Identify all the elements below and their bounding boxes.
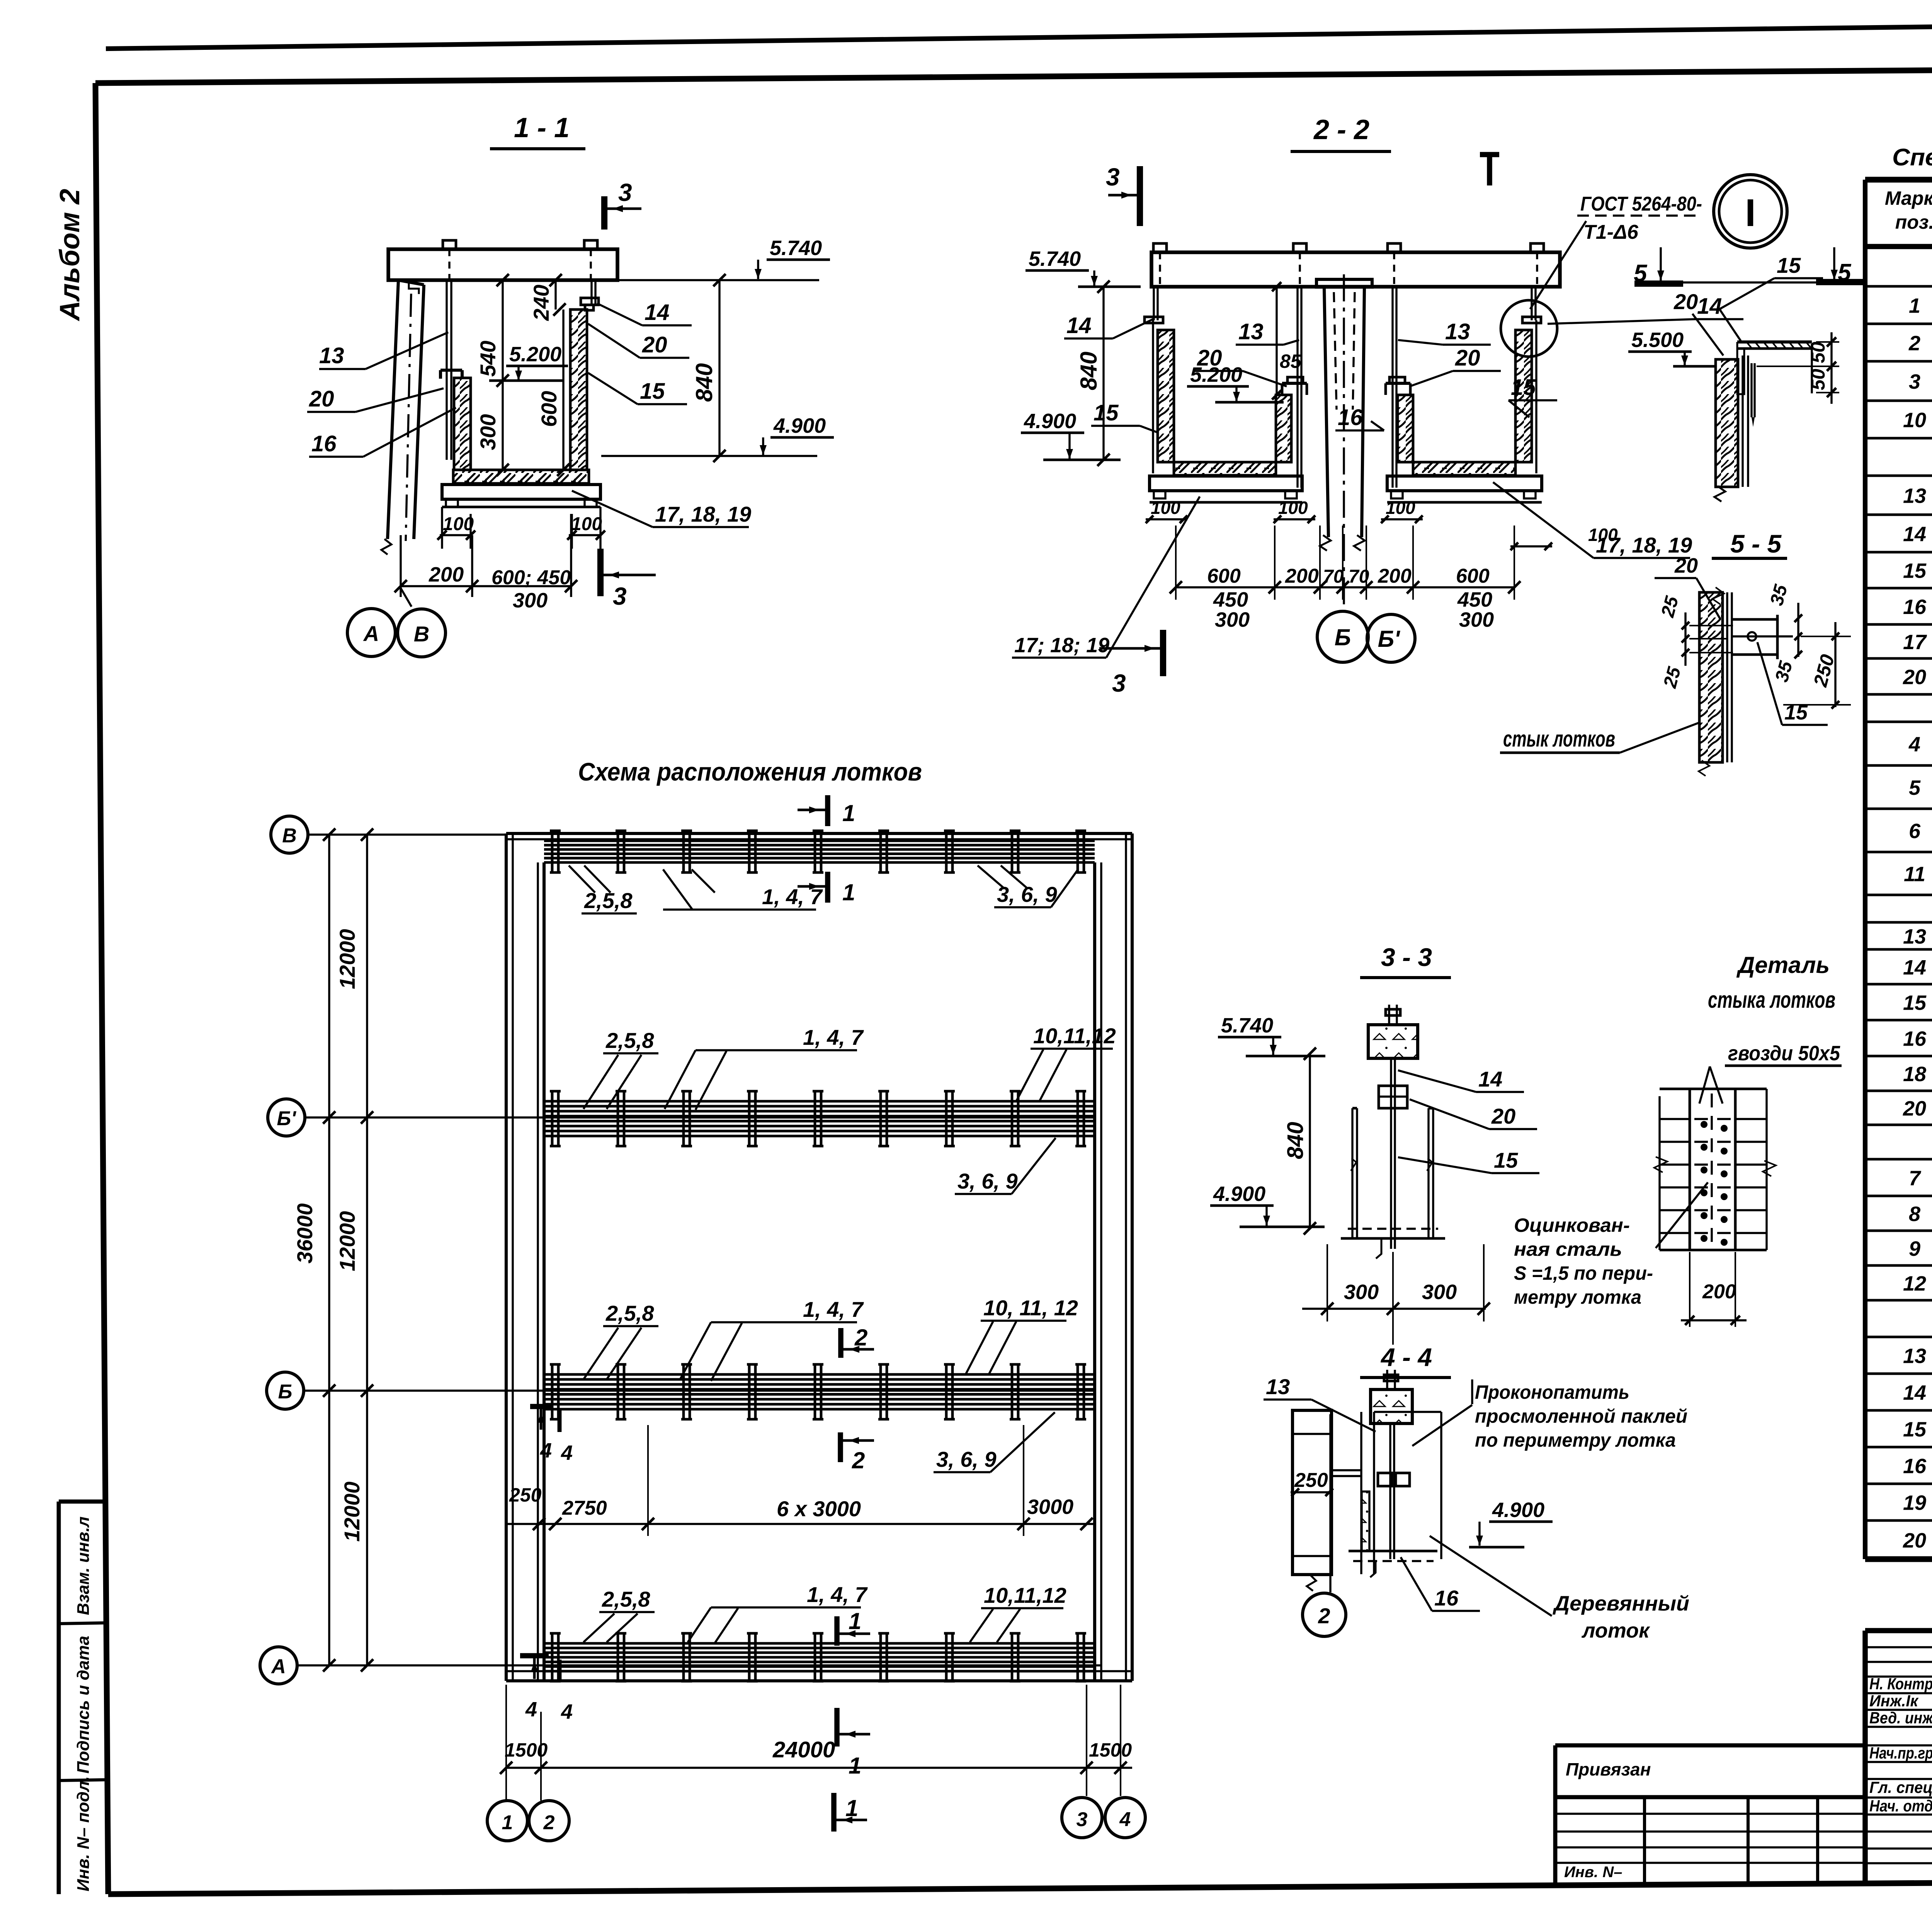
2-2 label 16 center xyxy=(1335,405,1384,430)
section 1-1 level mark 5.740 xyxy=(617,236,830,280)
svg-text:2,5,8: 2,5,8 xyxy=(605,1028,654,1053)
svg-text:Б: Б xyxy=(1335,624,1351,650)
plan labels row A xyxy=(583,1582,1066,1643)
svg-text:2: 2 xyxy=(543,1811,555,1834)
2-2 label 15 left xyxy=(1091,400,1158,433)
label 20 right leader xyxy=(588,324,689,358)
svg-text:540: 540 xyxy=(476,341,500,377)
svg-text:стык лотков: стык лотков xyxy=(1503,726,1615,752)
svg-text:200: 200 xyxy=(1285,565,1319,587)
section 2-2 title xyxy=(1291,114,1391,151)
svg-text:840: 840 xyxy=(691,363,717,402)
svg-text:2,5,8: 2,5,8 xyxy=(602,1587,650,1611)
svg-text:19: 19 xyxy=(1903,1492,1926,1515)
section 1-1 ceiling beam xyxy=(388,240,617,280)
svg-text:I: I xyxy=(1745,191,1756,235)
svg-text:840: 840 xyxy=(1283,1122,1308,1159)
5-5 label 20 xyxy=(1655,554,1720,619)
svg-text:ГОСТ 5264-80-: ГОСТ 5264-80- xyxy=(1580,193,1702,215)
section mark 3 bottom of 2-2 xyxy=(1099,630,1163,697)
svg-text:1: 1 xyxy=(1909,294,1920,318)
svg-text:Подпись и дата: Подпись и дата xyxy=(74,1636,93,1774)
section 2-2 left tray rod 13 xyxy=(1298,287,1301,488)
svg-text:1: 1 xyxy=(842,800,855,826)
svg-text:300: 300 xyxy=(1422,1281,1457,1304)
title block left rows xyxy=(1865,1647,1932,1863)
svg-text:1: 1 xyxy=(849,1608,861,1634)
svg-text:20: 20 xyxy=(642,332,667,357)
svg-text:14: 14 xyxy=(1903,523,1926,546)
GOST weld note xyxy=(1530,193,1702,309)
svg-text:13: 13 xyxy=(1903,1345,1926,1368)
svg-text:20: 20 xyxy=(309,386,334,412)
svg-text:1: 1 xyxy=(842,879,855,905)
svg-text:300: 300 xyxy=(476,414,500,450)
section 1-1 level mark 5.200 xyxy=(489,343,568,381)
2-2 label 15 right xyxy=(1509,375,1557,417)
svg-text:100: 100 xyxy=(1588,525,1618,545)
svg-text:3: 3 xyxy=(1909,370,1920,393)
plan labels row Bprime xyxy=(583,1024,1116,1110)
svg-text:В: В xyxy=(282,825,297,847)
svg-text:3000: 3000 xyxy=(1027,1495,1073,1519)
section 1-1 level mark 4.900 xyxy=(601,414,834,456)
nail joint detail planks xyxy=(1654,1089,1776,1250)
svg-text:300: 300 xyxy=(513,589,548,612)
nail detail dim 200 xyxy=(1681,1252,1747,1327)
tray band row V xyxy=(544,831,1095,872)
svg-text:3, 6, 9: 3, 6, 9 xyxy=(936,1447,997,1471)
section 1-1 dim 540 300 vertical xyxy=(476,274,509,476)
svg-text:1, 4, 7: 1, 4, 7 xyxy=(803,1297,864,1321)
svg-text:20: 20 xyxy=(1455,345,1480,371)
svg-text:метру лотка: метру лотка xyxy=(1514,1286,1641,1308)
2-2 label 20 left xyxy=(1195,345,1287,386)
svg-text:ная сталь: ная сталь xyxy=(1514,1238,1622,1260)
svg-text:4.900: 4.900 xyxy=(1213,1182,1265,1206)
styk lotkov note xyxy=(1500,723,1699,753)
svg-text:3, 6, 9: 3, 6, 9 xyxy=(957,1169,1018,1193)
svg-text:14: 14 xyxy=(1697,294,1722,319)
svg-text:16: 16 xyxy=(1434,1586,1459,1610)
2-2 label 17 18 19 right xyxy=(1493,482,1692,558)
svg-text:10, 11, 12: 10, 11, 12 xyxy=(983,1296,1078,1320)
svg-text:85: 85 xyxy=(1280,350,1302,372)
axis bubbles B Bprime xyxy=(1317,611,1415,662)
section 2-2 ceiling beam xyxy=(1151,243,1560,287)
2-2 label 13 right xyxy=(1398,319,1491,345)
section 1-1 title xyxy=(490,112,585,149)
section 1-1 dim 840 xyxy=(691,274,726,462)
privyazan small table xyxy=(1555,1745,1865,1885)
svg-text:17: 17 xyxy=(1903,631,1927,654)
svg-text:Инж.Iк: Инж.Iк xyxy=(1869,1692,1919,1710)
2-2 label 14 right top xyxy=(1548,294,1743,324)
svg-text:1, 4, 7: 1, 4, 7 xyxy=(762,884,823,909)
svg-text:лоток: лоток xyxy=(1581,1619,1650,1642)
detail 5-5 title xyxy=(1712,529,1787,558)
3-3 label 15 xyxy=(1398,1148,1539,1173)
4-4 note derevyannyi lotok xyxy=(1430,1536,1689,1642)
svg-text:4 - 4: 4 - 4 xyxy=(1380,1343,1432,1371)
3-3 level 4.900 xyxy=(1210,1182,1325,1227)
svg-text:15: 15 xyxy=(1903,1418,1927,1441)
section 2-2 left support plate xyxy=(1150,476,1302,502)
svg-text:2: 2 xyxy=(854,1325,867,1350)
svg-text:2750: 2750 xyxy=(562,1497,607,1519)
svg-text:Деревянный: Деревянный xyxy=(1553,1592,1689,1615)
svg-text:Н. Контр.: Н. Контр. xyxy=(1869,1675,1932,1693)
svg-text:Т1-Δ6: Т1-Δ6 xyxy=(1583,221,1639,243)
detail circle I large xyxy=(1714,175,1787,248)
svg-text:стыка лотков: стыка лотков xyxy=(1708,987,1835,1013)
section 1-1 wood wall 16 xyxy=(454,378,471,470)
svg-text:А: А xyxy=(363,621,379,646)
svg-text:3: 3 xyxy=(613,582,627,610)
plan left vertical dimension lines xyxy=(293,828,373,1672)
svg-text:12000: 12000 xyxy=(335,929,359,989)
corner detail nail xyxy=(1752,363,1755,427)
svg-text:13: 13 xyxy=(1903,485,1926,508)
corner label 15 xyxy=(1719,253,1823,341)
svg-text:14: 14 xyxy=(1903,1381,1926,1405)
svg-text:15: 15 xyxy=(1494,1148,1518,1172)
section 2-2 left tray rod 14 xyxy=(1145,287,1163,323)
5-5 wood wall section xyxy=(1699,587,1732,776)
svg-text:15: 15 xyxy=(1094,400,1119,425)
svg-text:17, 18, 19: 17, 18, 19 xyxy=(655,502,751,526)
svg-text:4: 4 xyxy=(561,1700,573,1723)
section 4-4 title xyxy=(1360,1343,1451,1378)
4-4 tray bottom lines xyxy=(1349,1551,1437,1577)
svg-text:3, 6, 9: 3, 6, 9 xyxy=(997,882,1057,906)
svg-text:3 - 3: 3 - 3 xyxy=(1381,943,1432,971)
section 1-1 support plate 17 18 19 xyxy=(442,485,600,507)
3-3 bottom dims 300 300 xyxy=(1302,1244,1490,1345)
label 16 leader xyxy=(309,408,456,457)
svg-text:4: 4 xyxy=(1119,1808,1131,1831)
section 1-1 bottom dimension line xyxy=(395,514,577,612)
table header labels xyxy=(1885,187,1932,233)
section 2-2 central concrete chute 16 xyxy=(1316,274,1372,611)
3-3 label 20 xyxy=(1410,1099,1537,1129)
svg-text:В: В xyxy=(414,622,429,646)
plan section mark 1 below A band xyxy=(837,1708,870,1779)
svg-text:300: 300 xyxy=(1459,608,1494,631)
svg-text:600; 450: 600; 450 xyxy=(492,566,571,589)
svg-text:100: 100 xyxy=(1278,498,1308,518)
2-2 bottom dimension line xyxy=(1170,526,1520,631)
label 17 18 19 leader xyxy=(572,491,751,527)
5-5 dim 35 bottom and 250 xyxy=(1771,622,1851,709)
svg-text:7: 7 xyxy=(1909,1167,1922,1190)
svg-text:6 х 3000: 6 х 3000 xyxy=(777,1497,861,1521)
plan section mark 2 bottom xyxy=(840,1432,874,1473)
svg-text:Б: Б xyxy=(278,1381,293,1403)
svg-text:5.500: 5.500 xyxy=(1631,328,1684,352)
svg-text:4.900: 4.900 xyxy=(1024,410,1076,433)
svg-text:Альбом 2: Альбом 2 xyxy=(54,189,85,321)
svg-text:гвозди 50х5: гвозди 50х5 xyxy=(1728,1042,1840,1065)
section 2-2 left inner wood wall xyxy=(1276,395,1291,462)
svg-text:1: 1 xyxy=(845,1795,858,1821)
3-3 concrete block xyxy=(1368,1005,1418,1058)
svg-text:200: 200 xyxy=(1702,1281,1736,1303)
svg-text:15: 15 xyxy=(1511,375,1536,400)
detail circle I on drawing xyxy=(1501,300,1557,357)
svg-text:Нач.пр.гр.: Нач.пр.гр. xyxy=(1869,1744,1932,1762)
svg-text:Схема расположения лотков: Схема расположения лотков xyxy=(578,757,922,786)
svg-text:16: 16 xyxy=(1338,405,1363,430)
section 1-1 concrete wall column xyxy=(381,280,424,554)
svg-text:5.740: 5.740 xyxy=(1221,1014,1273,1037)
svg-text:15: 15 xyxy=(1777,253,1801,277)
2-2 label 13 left xyxy=(1236,319,1299,345)
svg-text:14: 14 xyxy=(1478,1067,1502,1091)
4-4 label 13 xyxy=(1264,1374,1376,1432)
svg-text:Вед. инж.: Вед. инж. xyxy=(1869,1709,1932,1727)
svg-text:13: 13 xyxy=(319,343,344,368)
section 2-2 dim 85 xyxy=(1272,282,1302,400)
svg-text:14: 14 xyxy=(1066,313,1092,338)
svg-text:15: 15 xyxy=(1903,560,1927,583)
section 3-3 title xyxy=(1360,943,1451,978)
section 2-2 left wood wall xyxy=(1158,330,1174,462)
3-3 label 14 xyxy=(1398,1067,1524,1092)
svg-text:5.740: 5.740 xyxy=(1029,247,1081,270)
section 2-2 dim 840 xyxy=(1076,281,1110,466)
section 2-2 level 4.900 xyxy=(1021,410,1121,460)
4-4 concrete pier xyxy=(1293,1410,1332,1591)
tray band row Bprime xyxy=(544,1091,1095,1146)
svg-text:200: 200 xyxy=(429,563,464,586)
corner detail dims 50 50 xyxy=(1757,332,1839,404)
svg-text:1: 1 xyxy=(849,1753,861,1779)
svg-text:20: 20 xyxy=(1197,345,1222,371)
specification table grid xyxy=(1865,180,1932,1559)
svg-text:100: 100 xyxy=(1386,498,1415,518)
title block signature texts xyxy=(1869,1674,1932,1815)
section mark 3 top left of 2-2 xyxy=(1106,163,1140,226)
5-5 dim 35 top xyxy=(1766,582,1802,657)
svg-text:по периметру лотка: по периметру лотка xyxy=(1475,1429,1676,1451)
svg-text:240: 240 xyxy=(529,285,553,321)
svg-text:А: А xyxy=(270,1655,286,1678)
svg-text:250: 250 xyxy=(1294,1469,1328,1492)
4-4 hanger rod xyxy=(1390,1423,1394,1559)
svg-text:840: 840 xyxy=(1076,352,1102,390)
svg-text:14: 14 xyxy=(645,300,670,325)
plan axis bubbles 1 2 3 4 xyxy=(487,1798,1145,1841)
section mark 5 left xyxy=(1634,247,1683,287)
label 14 right leader xyxy=(597,300,692,325)
svg-text:5.200: 5.200 xyxy=(509,343,561,366)
svg-text:450: 450 xyxy=(1213,588,1248,611)
corner label 20 xyxy=(1673,289,1723,355)
3-3 level 5.740 xyxy=(1218,1014,1325,1056)
4-4 concrete block top xyxy=(1371,1370,1412,1423)
svg-text:Проконопатить: Проконопатить xyxy=(1475,1381,1629,1403)
axis bubbles A V xyxy=(347,588,446,657)
plan tank walls xyxy=(506,833,1132,1681)
axis bubble V xyxy=(271,816,506,853)
4-4 note prokonapatit xyxy=(1412,1379,1687,1451)
svg-text:20: 20 xyxy=(1674,554,1698,577)
svg-text:3: 3 xyxy=(1106,163,1120,191)
svg-text:Взам. инв.л: Взам. инв.л xyxy=(74,1517,93,1615)
svg-text:70: 70 xyxy=(1349,566,1369,587)
4-4 clamp squares xyxy=(1378,1473,1410,1486)
svg-text:Деталь: Деталь xyxy=(1736,952,1830,978)
plan label 369 below B xyxy=(934,1412,1055,1472)
2-2 dims 100 xyxy=(1146,498,1618,550)
plan label 369 below Bprime xyxy=(955,1138,1056,1194)
3-3 dim 840 xyxy=(1283,1048,1316,1235)
section 2-2 right wood wall xyxy=(1515,330,1532,462)
detail title Detal styka lotkov xyxy=(1708,952,1835,1013)
svg-text:1500: 1500 xyxy=(505,1739,548,1761)
svg-text:6: 6 xyxy=(1909,820,1921,843)
svg-text:9: 9 xyxy=(1909,1237,1920,1260)
svg-text:18: 18 xyxy=(1903,1063,1926,1086)
svg-text:15: 15 xyxy=(640,379,665,404)
svg-text:4: 4 xyxy=(561,1441,573,1464)
svg-text:3: 3 xyxy=(618,179,632,206)
svg-text:10,11,12: 10,11,12 xyxy=(1033,1024,1116,1048)
svg-text:Нач. отд.: Нач. отд. xyxy=(1869,1797,1932,1815)
5-5 bracket with bolt xyxy=(1732,615,1793,659)
svg-text:10: 10 xyxy=(1903,409,1926,432)
svg-text:12: 12 xyxy=(1903,1272,1926,1295)
plan section mark 1 bottom far xyxy=(834,1793,867,1832)
beam bottom extension line to corner detail xyxy=(1683,281,1832,283)
svg-text:50: 50 xyxy=(1807,342,1829,363)
svg-text:8: 8 xyxy=(1909,1202,1920,1226)
svg-text:12000: 12000 xyxy=(340,1481,364,1542)
tray band row A xyxy=(544,1633,1095,1681)
corner detail wood wall below xyxy=(1714,355,1748,502)
svg-text:200: 200 xyxy=(1378,565,1412,587)
svg-text:4: 4 xyxy=(525,1698,537,1721)
svg-text:2,5,8: 2,5,8 xyxy=(605,1301,654,1325)
svg-text:4.900: 4.900 xyxy=(1492,1498,1544,1522)
svg-text:300: 300 xyxy=(1344,1281,1379,1304)
svg-text:13: 13 xyxy=(1238,319,1264,344)
level mark 5.500 xyxy=(1628,328,1716,366)
plan bottom dimension 1500 24000 1500 xyxy=(500,1685,1132,1801)
svg-text:4: 4 xyxy=(1908,733,1920,756)
axis bubble A xyxy=(260,1647,1101,1684)
section mark 5 right xyxy=(1816,247,1864,286)
section 2-2 right tray rod 13 xyxy=(1393,287,1396,488)
5-5 dims 25 25 xyxy=(1657,594,1733,690)
svg-text:13: 13 xyxy=(1266,1374,1290,1399)
svg-text:Гл. спец.: Гл. спец. xyxy=(1869,1778,1932,1796)
svg-text:4.900: 4.900 xyxy=(773,414,826,437)
3-3 tray bottom xyxy=(1341,1229,1445,1259)
section 2-2 right tray floor xyxy=(1413,462,1515,475)
svg-text:250: 250 xyxy=(509,1484,542,1506)
svg-text:450: 450 xyxy=(1457,588,1492,611)
svg-text:600: 600 xyxy=(537,391,561,427)
svg-text:16: 16 xyxy=(1903,1027,1927,1051)
svg-text:16: 16 xyxy=(1903,1455,1927,1478)
3-3 tray walls end view xyxy=(1351,1108,1433,1238)
svg-text:5.740: 5.740 xyxy=(770,236,822,260)
svg-text:3: 3 xyxy=(1112,669,1126,697)
axis bubble Bprime xyxy=(268,1099,1095,1136)
svg-text:16: 16 xyxy=(311,431,337,456)
section 1-1 wood wall 15 xyxy=(570,310,587,470)
2-2 label 17 18 19 left xyxy=(1012,497,1200,658)
label 20 left leader xyxy=(307,386,444,412)
section 1-1 clamp 20 left xyxy=(440,370,462,379)
svg-text:Инв. N–: Инв. N– xyxy=(1564,1864,1622,1881)
plan section mark 1 below top band xyxy=(798,872,855,905)
svg-text:100: 100 xyxy=(1151,498,1180,518)
svg-text:17; 18; 19: 17; 18; 19 xyxy=(1014,634,1109,657)
plan labels row B xyxy=(583,1296,1078,1381)
svg-text:5: 5 xyxy=(1909,776,1921,799)
section 1-1 hanger rod 13 xyxy=(447,280,451,460)
svg-text:2: 2 xyxy=(852,1447,865,1473)
section 2-2 right inner clamp xyxy=(1386,377,1410,395)
4-4 packing strip xyxy=(1362,1492,1369,1551)
3-3 clamp 20 xyxy=(1379,1086,1407,1108)
svg-text:просмоленной паклей: просмоленной паклей xyxy=(1475,1405,1687,1427)
svg-text:4: 4 xyxy=(540,1439,552,1462)
nails note gvozdi 50x5 xyxy=(1699,1042,1842,1104)
5-5 label 15 xyxy=(1757,642,1828,725)
note ocinkovannaya stal xyxy=(1514,1182,1708,1308)
svg-text:13: 13 xyxy=(1445,319,1470,344)
section mark 3 bottom xyxy=(600,549,656,610)
plan dim line 250 2750 6x3000 3000 xyxy=(506,1425,1095,1536)
tray band row B xyxy=(544,1364,1095,1419)
svg-text:36000: 36000 xyxy=(293,1203,317,1264)
section 1-1 rod 14 and bolt xyxy=(581,280,599,310)
svg-text:2,5,8: 2,5,8 xyxy=(584,888,633,913)
section 2-2 right tray rod 14 xyxy=(1522,287,1541,323)
svg-text:20: 20 xyxy=(1673,289,1698,314)
label 15 right leader xyxy=(588,373,687,404)
section 1-1 tray floor xyxy=(453,470,589,483)
svg-text:1 - 1: 1 - 1 xyxy=(514,112,570,143)
section 1-1 dim 100 left xyxy=(437,507,475,549)
2-2 label 20 right xyxy=(1410,345,1501,386)
section 2-2 level 5.200 xyxy=(1187,363,1284,402)
plan labels row V xyxy=(569,866,1078,913)
label 13 leader xyxy=(319,332,448,369)
svg-text:15: 15 xyxy=(1784,701,1808,724)
sheet outer top edge line xyxy=(106,17,1932,49)
section 2-2 left tray floor xyxy=(1174,462,1276,475)
svg-text:20: 20 xyxy=(1903,666,1926,689)
svg-text:Привязан: Привязан xyxy=(1566,1759,1651,1779)
4-4 axis bubble 2 xyxy=(1303,1414,1346,1636)
svg-text:20: 20 xyxy=(1903,1097,1926,1120)
svg-text:70: 70 xyxy=(1323,566,1344,587)
svg-text:11: 11 xyxy=(1904,863,1925,886)
svg-text:13: 13 xyxy=(1903,925,1926,948)
svg-text:20: 20 xyxy=(1903,1529,1926,1552)
svg-text:Спецификация элементов к сх: Спецификация элементов к схеме расположе… xyxy=(1892,144,1932,171)
section 2-2 right support plate xyxy=(1387,476,1542,502)
svg-text:600: 600 xyxy=(1207,565,1241,587)
svg-text:24000: 24000 xyxy=(772,1737,835,1762)
svg-text:10,11,12: 10,11,12 xyxy=(984,1583,1066,1607)
section 1-1 dim 100 right xyxy=(567,507,605,549)
